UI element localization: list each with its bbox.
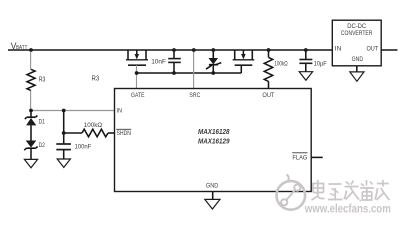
zener diode D1 [25, 111, 45, 126]
wire GATE lead Q1 [136, 65, 138, 88]
IC U1 MAX16128/MAX16129 [115, 89, 312, 192]
watermark text dianzifashaoyou [312, 180, 390, 201]
wire SRC [193, 50, 195, 89]
watermark logo circle [277, 175, 306, 210]
junction node IN/diodes [29, 109, 33, 113]
junction node 10nF bottom [172, 71, 176, 75]
wire IN to cap [63, 111, 65, 144]
capacitor 10nF [151, 50, 181, 73]
capacitor 10uF [299, 50, 326, 72]
net label VBATT [11, 41, 28, 51]
capacitor 100nF [56, 143, 91, 159]
svg-text:www.elecfans.com: www.elecfans.com [304, 204, 391, 216]
svg-text:DC-DC: DC-DC [347, 23, 366, 30]
svg-text:100kΩ: 100kΩ [84, 122, 102, 129]
junction node SHDN branch [62, 131, 66, 135]
svg-text:IN: IN [117, 107, 123, 114]
junction node zener bottom [211, 71, 215, 75]
junction node 10nF top [172, 48, 176, 52]
svg-text:SHDN: SHDN [117, 130, 132, 137]
svg-text:D1: D1 [39, 118, 46, 125]
junction node OUT top [267, 48, 271, 52]
wire IN net [31, 110, 115, 112]
svg-text:GND: GND [206, 182, 219, 189]
svg-text:IN: IN [335, 45, 342, 52]
wire IC GND [212, 192, 214, 200]
junction node zener top [211, 48, 215, 52]
svg-text:OUT: OUT [262, 92, 274, 99]
junction node IN/cap [62, 109, 66, 113]
wire top rail [8, 49, 332, 51]
ground (IC) [205, 199, 220, 209]
svg-text:FLAG: FLAG [292, 155, 307, 162]
transistor Q1 (n-channel MOSFET, back-to-back pair left) [126, 50, 148, 65]
svg-text:100kΩ: 100kΩ [274, 61, 287, 68]
svg-text:GND: GND [352, 56, 364, 63]
junction node gate rail Q1 [135, 71, 139, 75]
svg-text:D2: D2 [39, 142, 46, 149]
svg-text:MAX16129: MAX16129 [198, 137, 230, 146]
wire FLAG stub [311, 156, 323, 158]
wire output stub [381, 49, 397, 51]
zener diode D2 [24, 141, 45, 151]
ground (diodes) [24, 159, 37, 167]
junction node SRC top [192, 48, 196, 52]
svg-text:OUT: OUT [367, 45, 379, 52]
wire gate rail [137, 72, 242, 74]
svg-text:10µF: 10µF [314, 60, 327, 67]
ground (100nF) [57, 159, 70, 167]
svg-text:CONVERTER: CONVERTER [341, 30, 373, 37]
transistor Q2 (back-to-back pair right) [233, 50, 255, 73]
svg-text:GATE: GATE [131, 92, 145, 99]
ground (DC-DC) [350, 72, 364, 81]
svg-text:R3: R3 [92, 75, 100, 82]
svg-text:10nF: 10nF [151, 58, 166, 65]
resistor 100k (SHDN) [64, 122, 115, 137]
svg-text:MAX16128: MAX16128 [198, 127, 230, 136]
block DC-DC converter [332, 20, 381, 66]
junction node 10uF top [304, 48, 308, 52]
wire D1-D2 [30, 125, 32, 140]
zener diode (gate clamp) [206, 50, 221, 73]
svg-text:R3: R3 [39, 77, 45, 84]
svg-text:100nF: 100nF [75, 143, 92, 150]
resistor R3 [27, 52, 45, 111]
junction node VBATT/R3 [29, 48, 33, 52]
svg-text:SRC: SRC [189, 92, 200, 99]
wire D2-ground [30, 148, 32, 159]
resistor 100k (OUT pulldown) [264, 50, 287, 89]
wire DC-DC GND [356, 66, 358, 72]
ground (10uF) [299, 72, 312, 81]
